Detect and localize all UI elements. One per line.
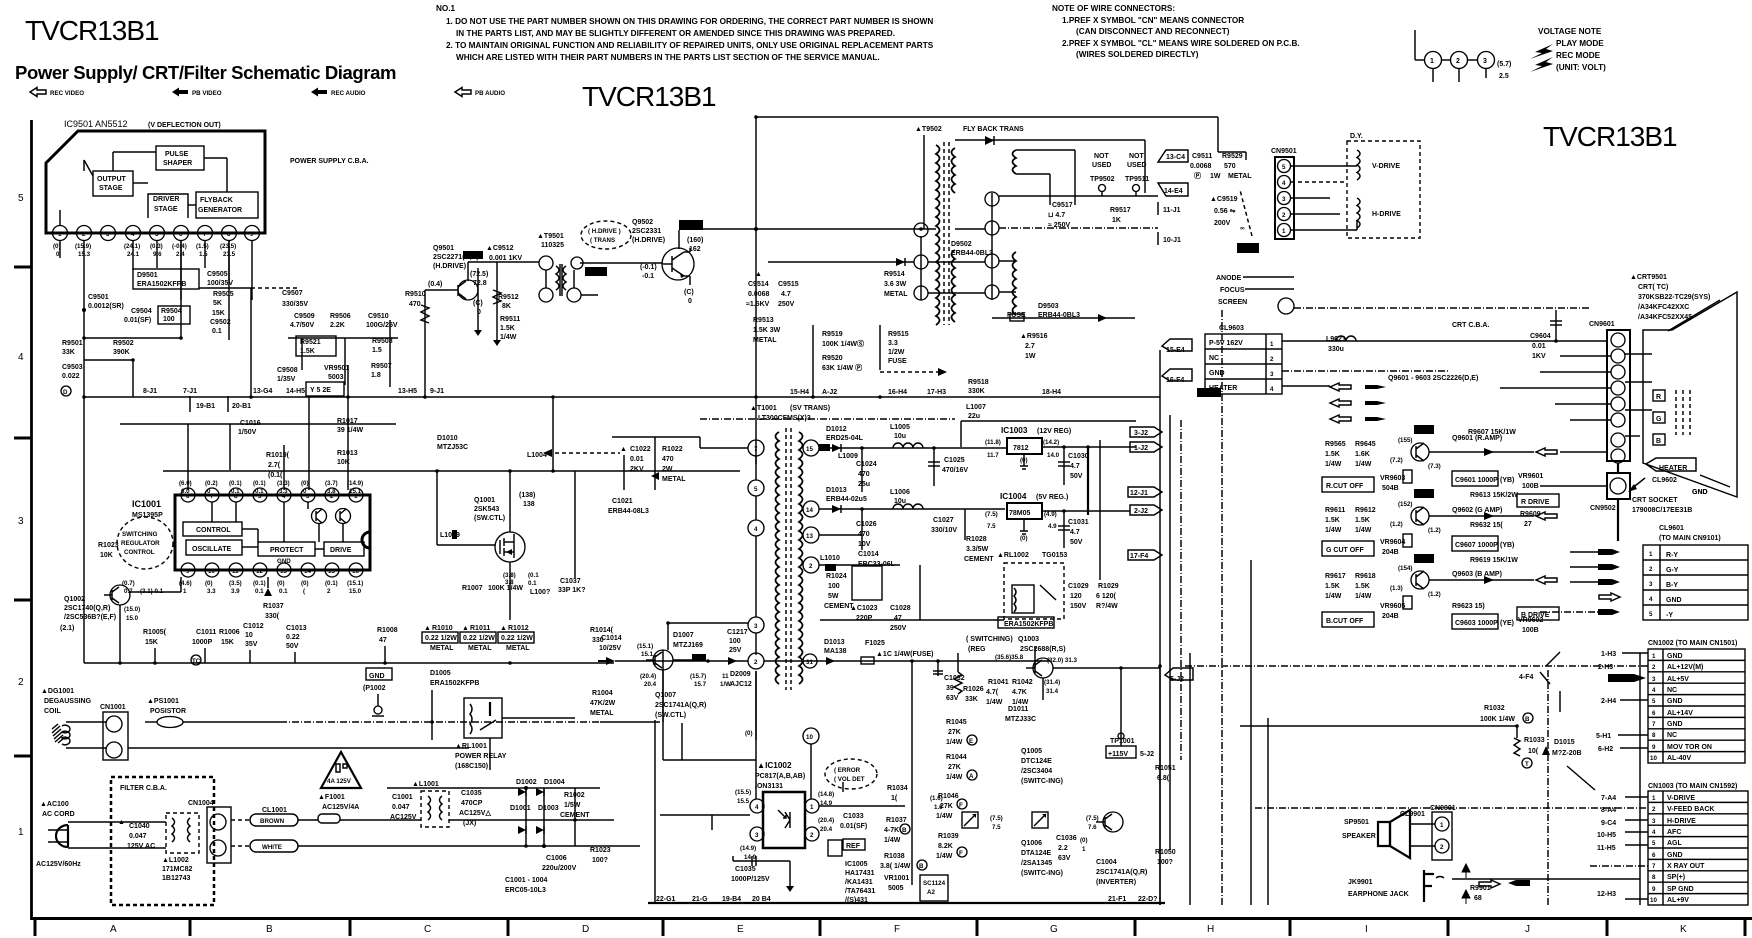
outline corner right down — [1217, 117, 1219, 152]
CN9501 pin 1 — [1278, 224, 1291, 237]
box B DRIVE — [1517, 607, 1559, 620]
svg-text:47K/2W: 47K/2W — [590, 700, 616, 707]
svg-text:0.047: 0.047 — [392, 804, 410, 811]
arrow PB AUDIO — [455, 88, 471, 97]
svg-text:NOT: NOT — [1129, 153, 1145, 160]
svg-text:(23.5): (23.5) — [220, 243, 236, 250]
relay RL1001 — [464, 698, 502, 738]
svg-text:R9617: R9617 — [1325, 573, 1346, 580]
svg-text:330/35V: 330/35V — [282, 301, 308, 308]
svg-text:1/4W: 1/4W — [1325, 527, 1342, 534]
wire 4-F4 up — [1034, 646, 1036, 668]
svg-text:(0.1): (0.1) — [229, 480, 242, 487]
svg-text:0.22 1/2W: 0.22 1/2W — [425, 635, 457, 642]
svg-text:C1033: C1033 — [843, 813, 864, 820]
svg-text:2: 2 — [810, 832, 814, 839]
svg-text:2: 2 — [1282, 212, 1286, 219]
svg-text:AFC: AFC — [1667, 829, 1681, 836]
svg-text:15K: 15K — [145, 639, 158, 646]
svg-text:4: 4 — [1652, 687, 1656, 694]
svg-text:2: 2 — [1270, 356, 1274, 363]
IC1004 output — [1042, 510, 1130, 512]
svg-text:MTZJ33C: MTZJ33C — [1005, 716, 1036, 723]
wire y788 — [387, 787, 600, 789]
svg-text:C9502: C9502 — [210, 319, 231, 326]
box R DRIVE — [1517, 494, 1559, 507]
svg-text:33K: 33K — [62, 349, 75, 356]
T1001 primary winding — [776, 432, 780, 684]
pin 7 — [198, 226, 213, 241]
svg-text:CN1002 (TO MAIN CN1501): CN1002 (TO MAIN CN1501) — [1648, 640, 1737, 647]
svg-text:GENERATOR: GENERATOR — [198, 207, 242, 214]
svg-text:5: 5 — [1649, 611, 1653, 618]
warning triangle fuse — [321, 752, 361, 788]
svg-text:DRIVE: DRIVE — [330, 547, 352, 554]
bus y397 continue — [560, 396, 1160, 398]
wire verticals — [911, 660, 913, 885]
svg-text:(7.2): (7.2) — [1390, 457, 1403, 464]
svg-text:1/4W: 1/4W — [946, 774, 963, 781]
svg-text:2: 2 — [82, 231, 86, 238]
svg-text:AC125V/60Hz: AC125V/60Hz — [36, 861, 81, 868]
wire pin7 up to y464 — [755, 440, 757, 464]
svg-text:REC MODE: REC MODE — [1556, 51, 1601, 60]
T9501 frame wires — [545, 270, 547, 288]
svg-text:6: 6 — [179, 231, 183, 238]
pin 8 — [222, 226, 237, 241]
svg-text:C1040: C1040 — [129, 823, 150, 830]
svg-text:5: 5 — [754, 486, 758, 493]
wire vertical x880 — [879, 325, 881, 370]
svg-text:120: 120 — [1070, 593, 1082, 600]
svg-text:6.8(: 6.8( — [1157, 775, 1170, 782]
wire HEATER row — [1282, 385, 1330, 387]
wire vertical x920 down — [919, 565, 921, 620]
svg-text:(1.2): (1.2) — [1428, 591, 1441, 598]
svg-text:(0.1: (0.1 — [528, 572, 539, 579]
svg-text:1/4W: 1/4W — [936, 813, 953, 820]
svg-text:C1035: C1035 — [735, 866, 756, 873]
wire from IC1003 area down — [1159, 668, 1161, 905]
svg-text:14-E4: 14-E4 — [1164, 188, 1183, 195]
svg-text:570: 570 — [1224, 163, 1236, 170]
CN9601 pin circles — [1611, 333, 1625, 347]
svg-text:R9645: R9645 — [1355, 441, 1376, 448]
svg-text:39: 39 — [946, 685, 954, 692]
degaussing coil symbol — [62, 725, 70, 745]
svg-text:2: 2 — [18, 677, 24, 688]
svg-text:(11.8): (11.8) — [985, 439, 1001, 446]
IC1001 pin 10 — [205, 563, 219, 577]
svg-text:22u: 22u — [968, 413, 980, 420]
svg-text:D1013: D1013 — [826, 487, 847, 494]
svg-text:(0): (0) — [1020, 535, 1028, 542]
internal wires — [242, 528, 258, 530]
svg-text:L100?: L100? — [530, 589, 550, 596]
svg-text:NOT: NOT — [1094, 153, 1110, 160]
anode junction circle — [1278, 298, 1294, 314]
svg-text:R1006: R1006 — [219, 629, 240, 636]
svg-text:B: B — [1656, 438, 1661, 445]
svg-text:C1001 - 1004: C1001 - 1004 — [505, 877, 548, 884]
svg-text:DEGAUSSING: DEGAUSSING — [44, 698, 92, 705]
svg-text:D.Y.: D.Y. — [1350, 133, 1363, 140]
svg-text:≈ 250V: ≈ 250V — [1048, 222, 1070, 229]
vertical rails left of IC1002 — [654, 720, 656, 903]
svg-text:(7.5): (7.5) — [990, 815, 1003, 822]
svg-text:M?Z-20B: M?Z-20B — [1552, 750, 1582, 757]
wire G emitter — [1429, 515, 1534, 517]
svg-text:3: 3 — [1652, 818, 1656, 825]
svg-text:STAGE: STAGE — [154, 206, 178, 213]
AC lines to bridge — [298, 819, 318, 821]
svg-text:(1.2): (1.2) — [1390, 521, 1403, 528]
block PROTECT — [258, 542, 315, 556]
svg-text:SHAPER: SHAPER — [163, 160, 192, 167]
svg-text:(155): (155) — [1398, 437, 1412, 444]
T1001 pin stems — [755, 456, 757, 480]
block OUTPUT STAGE — [93, 171, 133, 196]
wire R emitter — [1429, 451, 1534, 453]
wire Q1003 emitter down — [1042, 678, 1044, 700]
wire TP1001 up — [1120, 668, 1122, 746]
svg-text:CN9502: CN9502 — [1590, 505, 1616, 512]
svg-text:10(: 10( — [1528, 748, 1539, 755]
svg-text:(15.0): (15.0) — [124, 606, 140, 613]
svg-text:WHICH ARE LISTED WITH THEIR PA: WHICH ARE LISTED WITH THEIR PART NUMBERS… — [456, 53, 880, 62]
svg-text:1: 1 — [183, 588, 187, 595]
svg-text:L1007: L1007 — [966, 404, 986, 411]
svg-text:9-C4: 9-C4 — [1601, 820, 1616, 827]
wire CN9501 feed — [1218, 151, 1246, 153]
svg-text:8.2K: 8.2K — [938, 843, 953, 850]
svg-text:21-F1: 21-F1 — [1108, 896, 1126, 903]
svg-text:LT300CFMS(X)3: LT300CFMS(X)3 — [758, 415, 811, 422]
IC1001 pin 15 — [325, 563, 339, 577]
T9501 pin circle bottom-right — [567, 288, 581, 302]
svg-text:470: 470 — [409, 301, 421, 308]
svg-text:REGULATOR: REGULATOR — [121, 540, 160, 547]
svg-text:VR9605: VR9605 — [1380, 603, 1405, 610]
junction circle left edge — [571, 257, 583, 269]
svg-text:(24.1): (24.1) — [124, 243, 140, 250]
svg-text:REC VIDEO: REC VIDEO — [50, 90, 84, 97]
svg-text:OUTPUT: OUTPUT — [97, 176, 127, 183]
svg-text:D1013: D1013 — [824, 639, 845, 646]
svg-text:15-E4: 15-E4 — [1166, 347, 1185, 354]
svg-text:D: D — [582, 924, 589, 935]
svg-text:R9519: R9519 — [822, 331, 843, 338]
svg-text:D1015: D1015 — [1554, 739, 1575, 746]
svg-text:5W: 5W — [828, 593, 839, 600]
svg-text:(UNIT: VOLT): (UNIT: VOLT) — [1556, 63, 1606, 72]
svg-text:(0): (0) — [205, 580, 213, 587]
svg-text:Q1007: Q1007 — [655, 692, 676, 699]
svg-text:0.0012(SR): 0.0012(SR) — [88, 303, 124, 310]
svg-text:1/4W: 1/4W — [936, 853, 953, 860]
wire pin5 down — [156, 241, 158, 268]
svg-text:0.0068: 0.0068 — [748, 291, 770, 298]
svg-text:HA17431: HA17431 — [845, 870, 875, 877]
svg-text:B DRIVE: B DRIVE — [1521, 612, 1550, 619]
svg-text:VR1001: VR1001 — [884, 875, 909, 882]
socket letter R — [1653, 390, 1665, 401]
sample pin 1 — [1425, 52, 1442, 69]
svg-text:1/35V: 1/35V — [277, 376, 296, 383]
wire y437 extend — [612, 436, 700, 438]
svg-text:200V: 200V — [1214, 220, 1231, 227]
svg-text:11-H5: 11-H5 — [1597, 845, 1616, 852]
svg-text:(1.2): (1.2) — [1428, 527, 1441, 534]
svg-text:C1029: C1029 — [1068, 583, 1089, 590]
svg-text:1(: 1( — [891, 795, 898, 802]
svg-text:L1006: L1006 — [890, 489, 910, 496]
WHITE cable — [250, 840, 298, 852]
wire y360 — [84, 359, 133, 361]
CL9601 feed arrows — [1598, 549, 1620, 555]
svg-text:330/10V: 330/10V — [931, 527, 957, 534]
svg-text:C9607 1000P: C9607 1000P — [1455, 542, 1498, 549]
svg-text:C9508: C9508 — [277, 367, 298, 374]
tab 15-E4 — [1162, 339, 1192, 351]
T9501 pin circle bottom-left — [539, 288, 553, 302]
svg-text:27K: 27K — [948, 729, 961, 736]
CN9501 pin 2 — [1278, 208, 1291, 221]
svg-text:C1024: C1024 — [856, 461, 877, 468]
svg-text:TP9502: TP9502 — [1090, 176, 1115, 183]
open arrow G row — [1536, 512, 1557, 520]
svg-text:D1011: D1011 — [1008, 706, 1028, 713]
svg-text:(154): (154) — [1398, 565, 1412, 572]
svg-text:TVCR13B1: TVCR13B1 — [1543, 121, 1677, 152]
IC1001 pin 2 — [325, 488, 339, 502]
svg-text:ERC05-10L3: ERC05-10L3 — [505, 887, 546, 894]
sample pin 2 — [1451, 52, 1468, 69]
svg-text:C9504: C9504 — [131, 308, 152, 315]
svg-text:C9505: C9505 — [207, 271, 228, 278]
IC1001 pin 6 — [181, 488, 195, 502]
svg-text:JK9901: JK9901 — [1348, 879, 1373, 886]
svg-text:3.3: 3.3 — [888, 340, 898, 347]
svg-text:(160): (160) — [687, 237, 703, 244]
svg-text:(YB): (YB) — [1500, 542, 1514, 549]
svg-text:CONTROL: CONTROL — [124, 549, 155, 556]
svg-text:14-H5: 14-H5 — [286, 388, 305, 395]
svg-text:AGL: AGL — [1667, 840, 1683, 847]
svg-text:0.01: 0.01 — [630, 456, 644, 463]
svg-text:2W: 2W — [662, 466, 673, 473]
svg-text:3: 3 — [1270, 371, 1274, 378]
svg-text:AL+9V: AL+9V — [1667, 897, 1689, 904]
svg-text:SWITCHING: SWITCHING — [122, 531, 158, 538]
svg-text:0: 0 — [477, 309, 481, 316]
verticals to bus — [154, 648, 156, 663]
tab 2-J2 — [1130, 505, 1162, 515]
BROWN cable — [250, 814, 298, 826]
black tag right — [1197, 388, 1221, 397]
svg-text:0: 0 — [207, 488, 211, 495]
IC1002 pin1 — [805, 799, 819, 813]
svg-text:R9623 15): R9623 15) — [1452, 603, 1485, 610]
svg-text:(14.8): (14.8) — [818, 791, 834, 798]
svg-text:(5.7): (5.7) — [1497, 61, 1511, 68]
svg-text:1. DO NOT USE THE PART NUMBER: 1. DO NOT USE THE PART NUMBER SHOWN ON T… — [446, 17, 933, 26]
svg-text:B: B — [1525, 716, 1530, 723]
svg-text:G CUT OFF: G CUT OFF — [1326, 547, 1364, 554]
svg-text:1.8: 1.8 — [371, 372, 381, 379]
svg-text:MA138: MA138 — [824, 648, 847, 655]
boxes around R101x — [422, 632, 458, 643]
svg-text:15.7: 15.7 — [694, 681, 707, 688]
svg-text:11.7: 11.7 — [987, 452, 999, 459]
svg-text:1B12743: 1B12743 — [162, 875, 191, 882]
svg-text:1.5: 1.5 — [372, 347, 382, 354]
circled 10 pin — [755, 700, 757, 740]
svg-text:Q1002: Q1002 — [64, 596, 85, 603]
svg-text:AC125V△: AC125V△ — [459, 810, 491, 817]
wire pin8 down — [228, 241, 230, 280]
svg-text:B.CUT OFF: B.CUT OFF — [1326, 618, 1364, 625]
svg-text:H-DRIVE: H-DRIVE — [1667, 818, 1696, 825]
svg-text:0.22 1/2W: 0.22 1/2W — [463, 635, 495, 642]
svg-text:1-J2: 1-J2 — [1134, 445, 1148, 452]
transistor Q1007 — [653, 650, 673, 670]
svg-text:100G/25V: 100G/25V — [366, 322, 398, 329]
svg-text:PC817(A,B,AB): PC817(A,B,AB) — [755, 773, 805, 780]
svg-text:(6.0): (6.0) — [179, 480, 192, 487]
svg-text:MS1395P: MS1395P — [132, 512, 163, 519]
svg-text:9: 9 — [250, 231, 254, 238]
svg-text:TG0153: TG0153 — [1042, 552, 1067, 559]
svg-text:3.8( 1/4W: 3.8( 1/4W — [880, 863, 911, 870]
svg-text:BROWN: BROWN — [260, 818, 285, 825]
svg-text:1/4W: 1/4W — [1355, 527, 1372, 534]
svg-text:2.5: 2.5 — [1499, 73, 1509, 80]
vertical x526 — [525, 788, 527, 846]
svg-text:EARPHONE JACK: EARPHONE JACK — [1348, 891, 1409, 898]
T1001 pin 2 — [803, 557, 819, 573]
capacitor C9607 — [1452, 536, 1498, 551]
svg-text:CRT SOCKET: CRT SOCKET — [1632, 497, 1678, 504]
svg-text:110325: 110325 — [541, 242, 564, 249]
svg-text:/2SC536B?(E,F): /2SC536B?(E,F) — [64, 614, 116, 621]
svg-text:14.9: 14.9 — [744, 854, 757, 861]
transistor Q1006 symbol — [1032, 812, 1048, 828]
svg-text:METAL: METAL — [753, 337, 777, 344]
svg-text:▲PS1001: ▲PS1001 — [147, 698, 179, 705]
svg-text:(35.6)35.8: (35.6)35.8 — [995, 654, 1024, 661]
svg-text:▲CRT9501: ▲CRT9501 — [1630, 274, 1667, 281]
junction dot — [82, 308, 86, 312]
svg-text:8: 8 — [1652, 874, 1656, 881]
svg-text:22-D?: 22-D? — [1138, 896, 1157, 903]
svg-text:B: B — [266, 924, 273, 935]
svg-text:68: 68 — [1474, 895, 1482, 902]
svg-text:R1005(: R1005( — [143, 629, 167, 636]
svg-text:F: F — [959, 802, 963, 809]
svg-text:12-H3: 12-H3 — [1597, 891, 1616, 898]
svg-text:R1046: R1046 — [938, 793, 959, 800]
svg-text:R1019(: R1019( — [266, 452, 290, 459]
svg-text:▲DG1001: ▲DG1001 — [41, 688, 74, 695]
wires CN9501 to yoke — [1291, 165, 1357, 167]
svg-text:100B: 100B — [1522, 483, 1539, 490]
svg-text:100B: 100B — [1522, 627, 1539, 634]
block DRIVE — [324, 542, 364, 556]
svg-text:MTZJ53C: MTZJ53C — [437, 444, 468, 451]
svg-text:C1036: C1036 — [1056, 835, 1077, 842]
svg-text:WHITE: WHITE — [262, 844, 282, 851]
svg-text:F: F — [959, 850, 963, 857]
svg-text:▲C1023: ▲C1023 — [850, 605, 878, 612]
inductor L1001 — [421, 791, 449, 827]
IC1001 pin 7 — [205, 488, 219, 502]
svg-text:R9521: R9521 — [300, 339, 321, 346]
svg-text:13-G4: 13-G4 — [253, 388, 273, 395]
svg-text:14: 14 — [806, 507, 813, 514]
svg-text:1W: 1W — [1210, 173, 1221, 180]
svg-text:9: 9 — [186, 568, 190, 575]
svg-text:TVCR13B1: TVCR13B1 — [25, 15, 159, 46]
svg-text:Q9603 (B AMP): Q9603 (B AMP) — [1452, 571, 1502, 578]
svg-text:R1029: R1029 — [1098, 583, 1119, 590]
svg-text:▲: ▲ — [462, 625, 469, 632]
svg-text:CRT C.B.A.: CRT C.B.A. — [1452, 322, 1489, 329]
wire Q1002 to IC1001 — [130, 591, 181, 593]
svg-text:250V: 250V — [778, 301, 795, 308]
flyback aux winding top — [1013, 150, 1017, 174]
capacitor C9603 — [1452, 614, 1498, 629]
svg-text:ERB44-08L3: ERB44-08L3 — [608, 508, 649, 515]
svg-text:R9618: R9618 — [1355, 573, 1376, 580]
svg-text:C9503: C9503 — [62, 364, 83, 371]
CN9501 pin 3 — [1278, 192, 1291, 205]
arrow PB VIDEO — [172, 88, 188, 97]
svg-text:V-FEED BACK: V-FEED BACK — [1667, 806, 1714, 813]
svg-text:330K: 330K — [968, 388, 985, 395]
svg-text:C1006: C1006 — [546, 855, 567, 862]
svg-text:E: E — [737, 924, 744, 935]
svg-text:GND: GND — [369, 673, 385, 680]
svg-text:5: 5 — [1282, 164, 1286, 171]
svg-text:2. TO MAINTAIN ORIGINAL FUNCT: 2. TO MAINTAIN ORIGINAL FUNCTION AND REL… — [446, 41, 934, 50]
open arrow R row — [1536, 448, 1557, 456]
svg-text:ANODE: ANODE — [1216, 275, 1242, 282]
block DRIVER STAGE — [148, 194, 188, 218]
svg-text:R9502: R9502 — [113, 340, 134, 347]
IC1002 pin3 — [750, 827, 764, 841]
svg-text:6: 6 — [1652, 710, 1656, 717]
svg-text:R1028: R1028 — [966, 536, 987, 543]
svg-text:(P1002: (P1002 — [363, 685, 386, 692]
svg-text:IN THE PARTS LIST, AND MAY BE: IN THE PARTS LIST, AND MAY BE SLIGHTLY D… — [456, 29, 895, 38]
transformer L1002 — [166, 813, 199, 853]
svg-text:15.1: 15.1 — [641, 651, 654, 658]
svg-text:(31.4): (31.4) — [1044, 679, 1060, 686]
svg-text:TVCR13B1: TVCR13B1 — [582, 81, 716, 112]
svg-text:D1005: D1005 — [430, 670, 451, 677]
svg-text:R1050: R1050 — [1155, 849, 1176, 856]
svg-text:4.7: 4.7 — [1070, 463, 1080, 470]
svg-text:1.5K: 1.5K — [1355, 517, 1370, 524]
svg-text:C1037: C1037 — [560, 578, 581, 585]
svg-text:5-J2: 5-J2 — [1140, 751, 1154, 758]
svg-text:1: 1 — [1652, 653, 1656, 660]
svg-text:7: 7 — [210, 493, 214, 500]
svg-text:R9504: R9504 — [161, 308, 182, 315]
svg-text:(0): (0) — [1020, 457, 1028, 464]
svg-text:15.0: 15.0 — [126, 615, 139, 622]
